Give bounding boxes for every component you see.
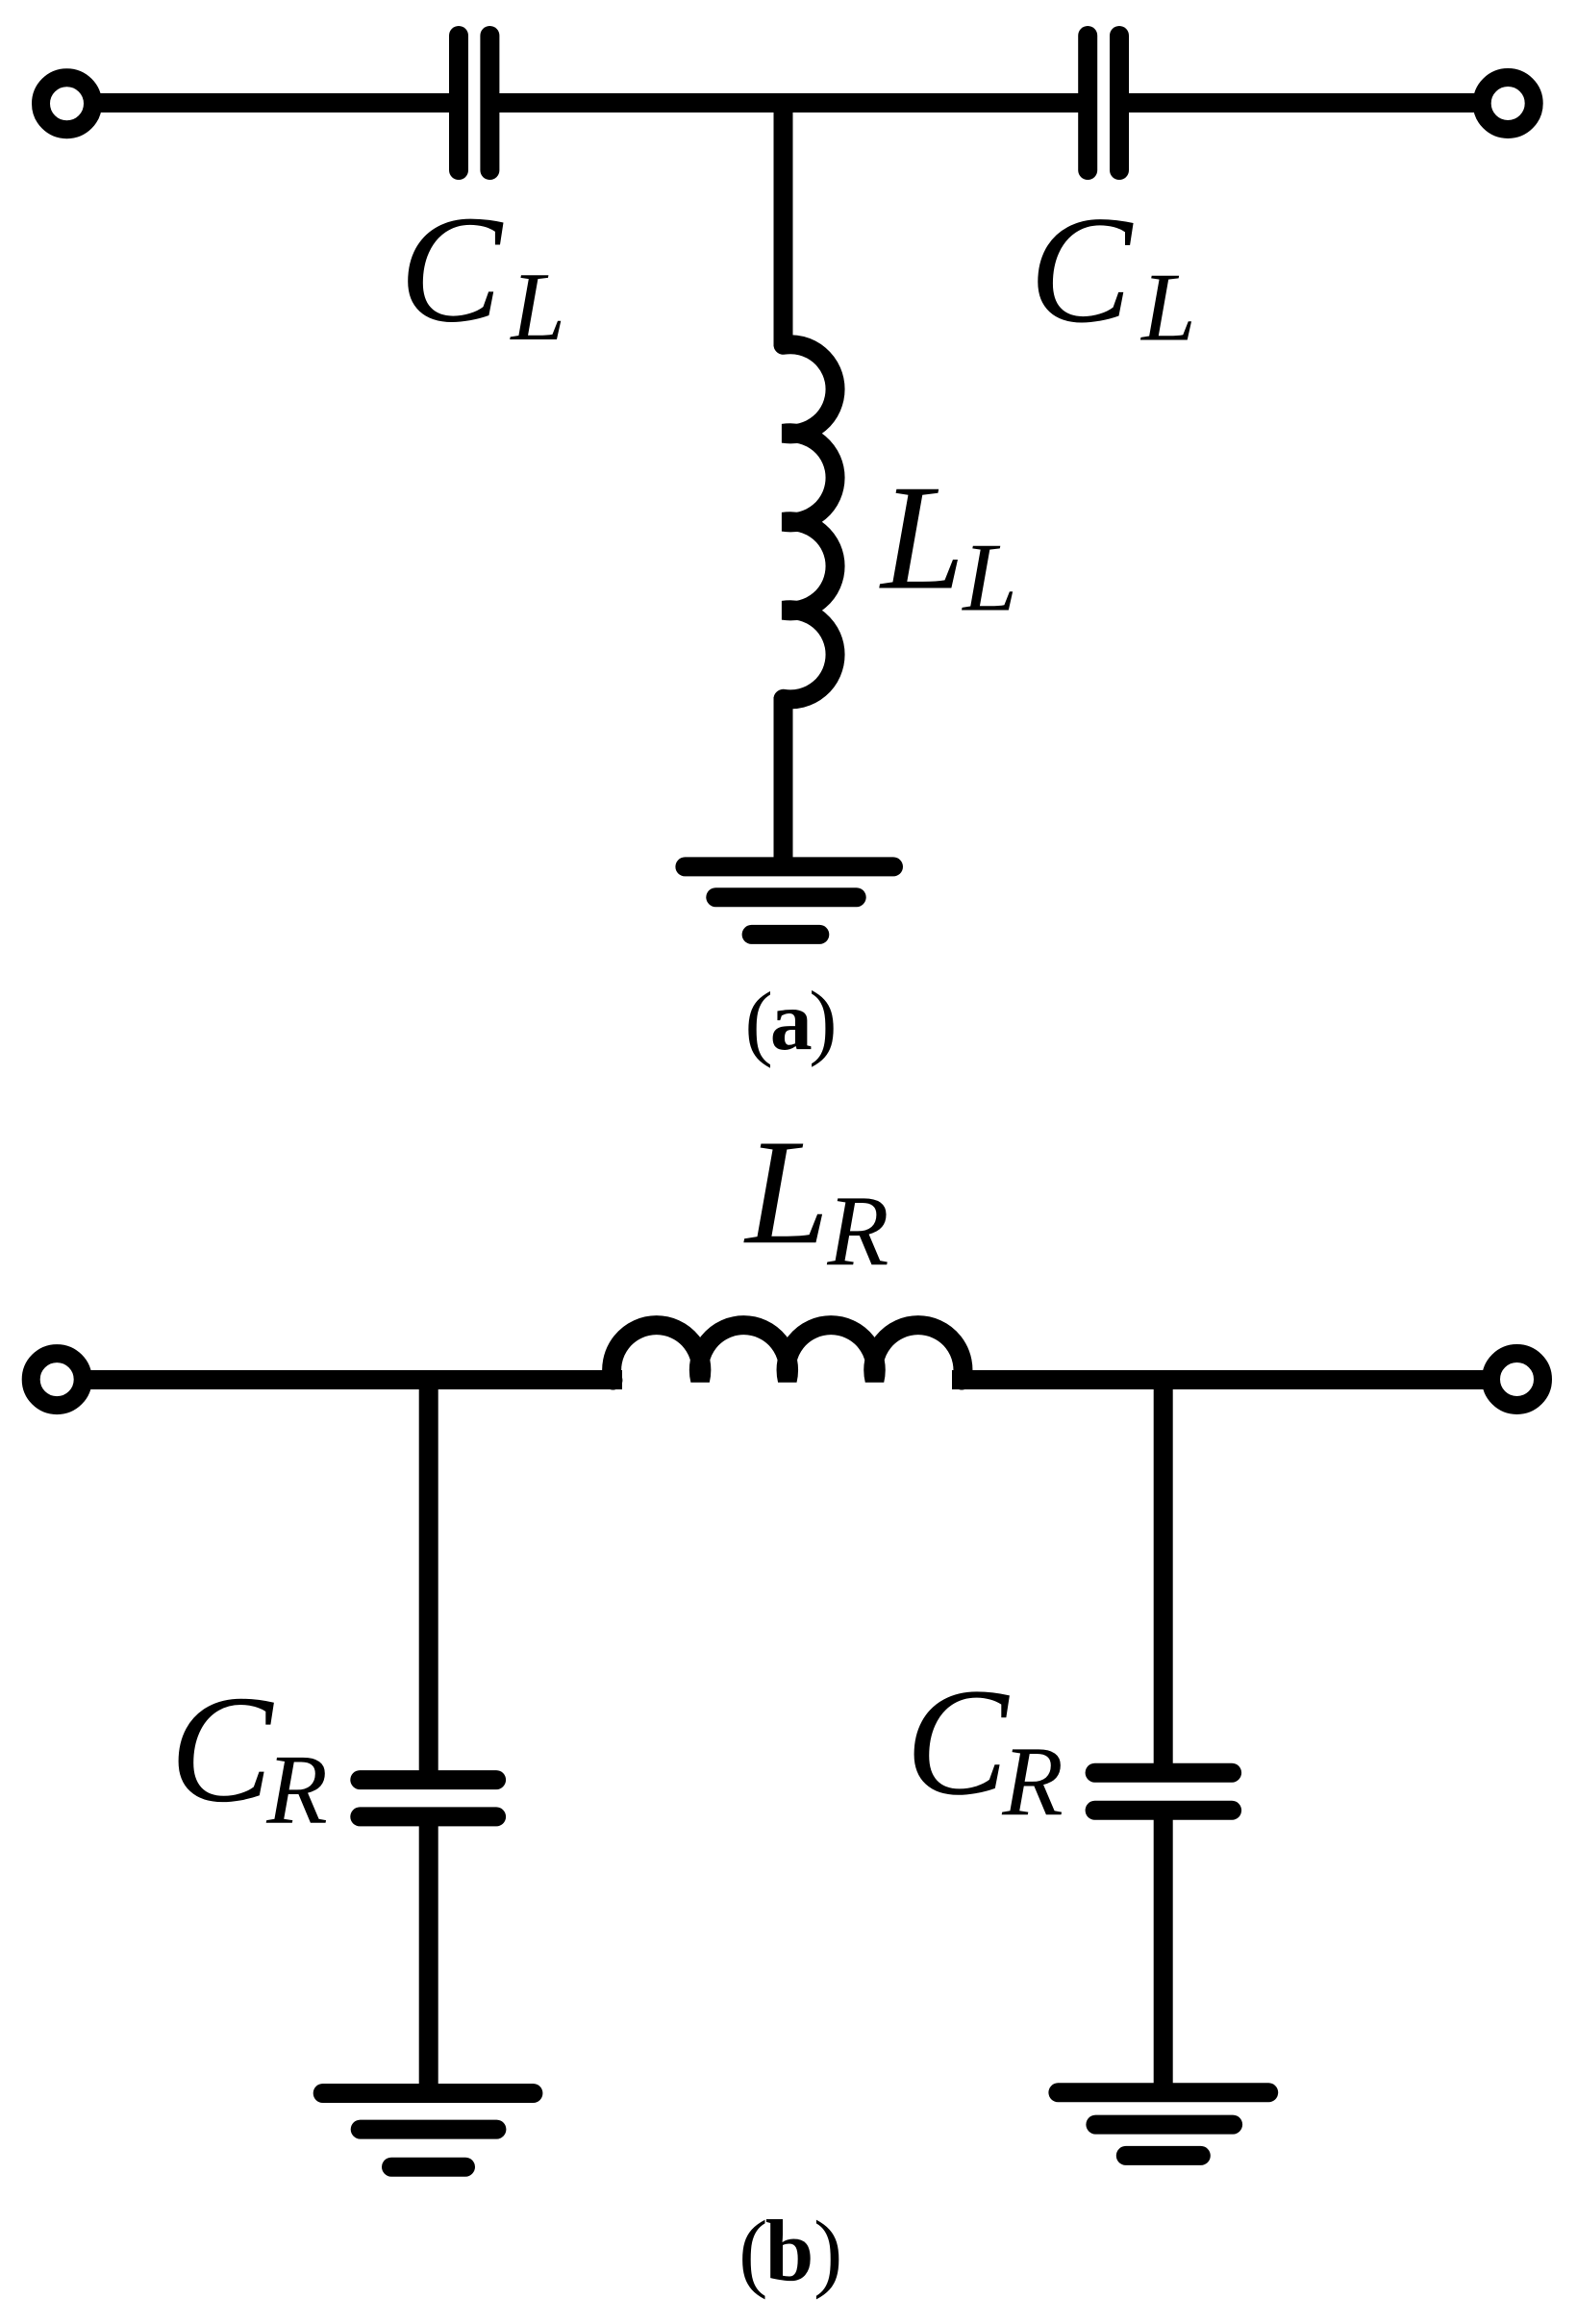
svg-text:R: R [1001,1726,1064,1837]
svg-text:L: L [743,1108,829,1275]
svg-text:C: C [170,1663,275,1835]
svg-text:R: R [265,1735,328,1845]
svg-text:L: L [961,523,1017,632]
svg-text:R: R [826,1174,889,1287]
svg-text:L: L [879,454,964,621]
svg-text:(: ( [738,2203,767,2300]
svg-text:L: L [1139,254,1196,362]
svg-text:C: C [399,184,504,355]
svg-text:a: a [770,975,813,1068]
svg-text:L: L [509,253,565,362]
svg-text:): ) [814,2203,842,2300]
svg-text:C: C [1029,184,1134,355]
svg-text:): ) [809,975,837,1068]
svg-text:C: C [906,1656,1011,1827]
svg-text:(: ( [745,976,773,1069]
svg-text:b: b [765,2203,814,2300]
